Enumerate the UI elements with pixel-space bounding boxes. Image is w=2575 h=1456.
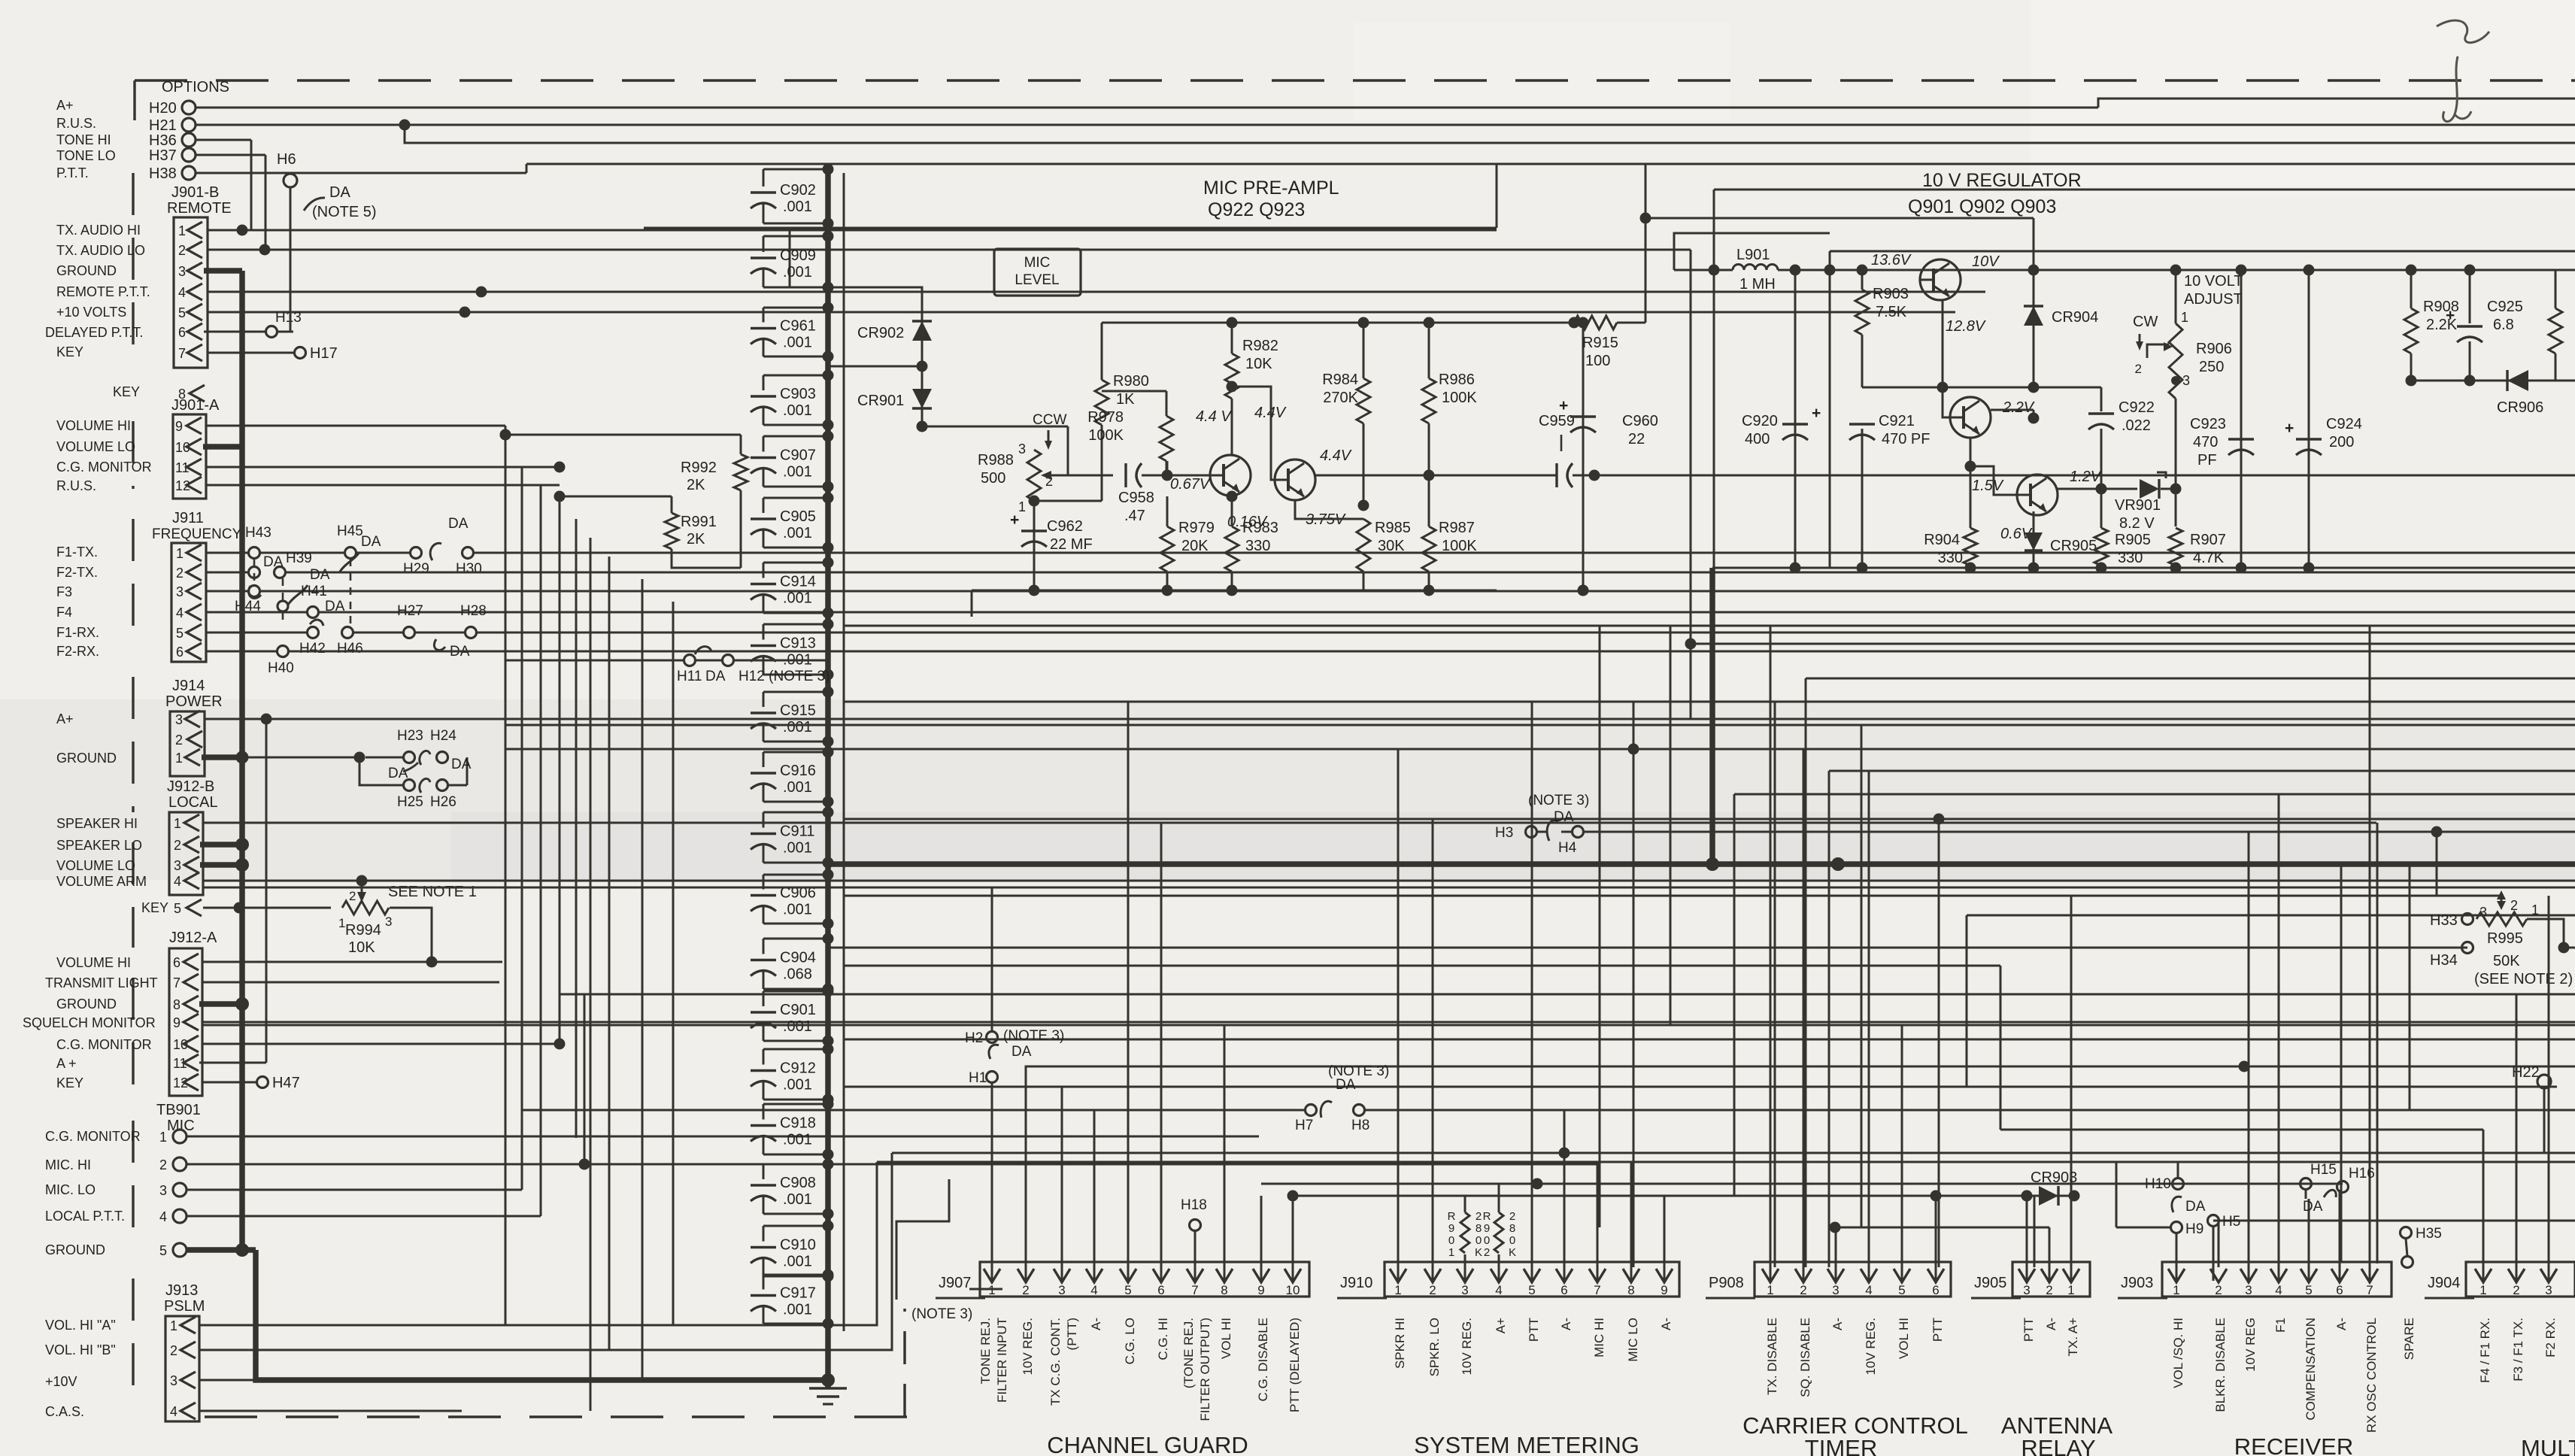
- svg-text:DA: DA: [1336, 1077, 1356, 1093]
- svg-text:R.U.S.: R.U.S.: [56, 116, 96, 131]
- jumper H3 DA H4: [1526, 827, 1537, 838]
- svg-text:Q901 Q902 Q903: Q901 Q902 Q903: [1908, 196, 2056, 217]
- svg-text:5: 5: [174, 901, 181, 916]
- svg-text:10 V REGULATOR: 10 V REGULATOR: [1922, 170, 2082, 191]
- svg-text:2: 2: [2513, 1283, 2519, 1297]
- capacitor C909: [763, 235, 828, 238]
- svg-text:H47: H47: [272, 1075, 300, 1091]
- svg-text:C915: C915: [780, 702, 816, 719]
- wire J912-B pin3 heavy: [200, 862, 242, 868]
- svg-text:.001: .001: [783, 1077, 812, 1094]
- svg-text:3: 3: [2023, 1283, 2030, 1297]
- svg-text:C.G. DISABLE: C.G. DISABLE: [1256, 1318, 1270, 1401]
- svg-text:DA: DA: [388, 766, 408, 781]
- svg-text:VOL HI: VOL HI: [1219, 1318, 1233, 1359]
- svg-text:(PTT): (PTT): [1065, 1318, 1079, 1350]
- regulator title underline: [1714, 189, 2575, 191]
- svg-text:2: 2: [159, 1157, 167, 1172]
- svg-text:2: 2: [2215, 1283, 2222, 1297]
- svg-text:.001: .001: [783, 719, 812, 736]
- svg-text:SPEAKER LO: SPEAKER LO: [56, 838, 142, 853]
- svg-text:MIC: MIC: [167, 1118, 195, 1134]
- svg-text:KEY: KEY: [141, 900, 168, 915]
- H10 H9 DA jumper: [2173, 1178, 2184, 1190]
- handwritten scribble top right: [2437, 20, 2489, 121]
- capacitor C903: [763, 375, 828, 377]
- svg-text:H5: H5: [2222, 1214, 2240, 1230]
- wire J913 pin1: [199, 1162, 877, 1325]
- wire Q902 emitter to Q903: [1970, 438, 1972, 466]
- capacitor C923 470PF: [2240, 270, 2243, 568]
- svg-text:1.5V: 1.5V: [1972, 478, 2004, 494]
- svg-text:6.8: 6.8: [2493, 317, 2514, 333]
- svg-text:R915: R915: [1582, 335, 1618, 351]
- bus wire row4: [526, 163, 1645, 165]
- svg-text:4: 4: [174, 874, 181, 889]
- svg-text:CR903: CR903: [2031, 1169, 2077, 1186]
- svg-text:GROUND: GROUND: [45, 1242, 105, 1257]
- svg-text:R: R: [1448, 1210, 1456, 1223]
- svg-text:5: 5: [159, 1243, 167, 1258]
- diode CR901: [921, 366, 924, 426]
- svg-text:H46: H46: [337, 641, 363, 657]
- wire Q902 collector to C922 node: [1991, 409, 2034, 411]
- svg-text:330: 330: [1938, 550, 1963, 566]
- svg-text:H45: H45: [337, 523, 363, 539]
- svg-text:3: 3: [178, 264, 186, 279]
- wire Q923 emitter to R985: [1295, 500, 1363, 519]
- svg-text:2: 2: [1509, 1210, 1515, 1223]
- svg-text:7: 7: [178, 346, 186, 361]
- resistor R978 100K: [1160, 416, 1173, 461]
- svg-text:C921: C921: [1879, 413, 1915, 429]
- svg-text:2: 2: [2046, 1283, 2052, 1297]
- transistor Q902: [1950, 397, 1991, 438]
- svg-text:MIC. HI: MIC. HI: [45, 1157, 91, 1172]
- svg-text:F1-RX.: F1-RX.: [56, 625, 99, 640]
- wire Q923 collector signal line: [1315, 475, 1557, 477]
- svg-text:TONE HI: TONE HI: [56, 132, 111, 147]
- svg-text:5: 5: [178, 305, 186, 320]
- svg-text:PTT: PTT: [1930, 1318, 1945, 1342]
- capacitor C961: [763, 307, 828, 309]
- svg-text:7: 7: [1594, 1283, 1600, 1297]
- svg-text:500: 500: [981, 470, 1005, 487]
- capacitor C921 470PF: [1849, 423, 1875, 425]
- svg-text:3: 3: [176, 584, 183, 599]
- svg-text:2: 2: [349, 889, 356, 903]
- svg-text:10V REG.: 10V REG.: [1864, 1318, 1878, 1376]
- svg-text:5: 5: [176, 626, 183, 641]
- svg-text:10V: 10V: [1972, 253, 2000, 270]
- svg-text:3: 3: [1832, 1283, 1839, 1297]
- svg-text:TX C.G. CONT.: TX C.G. CONT.: [1048, 1318, 1063, 1406]
- svg-text:1: 1: [2479, 1283, 2486, 1297]
- svg-text:2: 2: [174, 838, 181, 853]
- svg-text:H30: H30: [456, 561, 482, 577]
- svg-text:2: 2: [1476, 1210, 1482, 1223]
- svg-text:20K: 20K: [1181, 538, 1209, 554]
- svg-text:H18: H18: [1181, 1197, 1207, 1213]
- parallel vertical right of bus: [843, 173, 845, 1331]
- svg-text:H7: H7: [1295, 1118, 1313, 1133]
- wire TB901 pin4: [187, 1215, 541, 1218]
- svg-text:H41: H41: [301, 584, 327, 599]
- svg-text:C917: C917: [780, 1285, 816, 1302]
- svg-text:2: 2: [176, 566, 183, 581]
- svg-text:3: 3: [1058, 1283, 1065, 1297]
- svg-text:2.2V: 2.2V: [2002, 399, 2035, 416]
- H37 stub: [196, 154, 265, 156]
- wire to Q922 base: [1167, 475, 1210, 477]
- svg-text:C909: C909: [780, 247, 816, 264]
- svg-text:J905: J905: [1974, 1275, 2006, 1291]
- connector J903: [2162, 1262, 2392, 1297]
- svg-text:TRANSMIT LIGHT: TRANSMIT LIGHT: [45, 975, 158, 990]
- svg-text:P.T.T.: P.T.T.: [56, 165, 89, 180]
- svg-text:CW: CW: [2133, 314, 2158, 330]
- svg-text:330: 330: [1245, 538, 1270, 554]
- svg-text:10K: 10K: [348, 939, 375, 956]
- svg-text:SYSTEM METERING: SYSTEM METERING: [1414, 1432, 1639, 1456]
- svg-text:H25: H25: [397, 794, 423, 810]
- svg-text:R983: R983: [1242, 520, 1278, 536]
- svg-text:A-: A-: [1089, 1318, 1103, 1330]
- svg-text:.001: .001: [783, 402, 812, 419]
- capacitor C907: [763, 435, 828, 438]
- ground: [826, 1380, 830, 1388]
- svg-text:H13: H13: [275, 310, 302, 326]
- svg-text:3: 3: [175, 712, 183, 727]
- svg-text:4.4 V: 4.4 V: [1196, 408, 1232, 425]
- svg-text:KEY: KEY: [56, 344, 83, 359]
- svg-text:K: K: [1475, 1246, 1482, 1259]
- svg-text:.001: .001: [783, 464, 812, 481]
- svg-text:H20: H20: [149, 100, 177, 117]
- svg-text:RECEIVER: RECEIVER: [2234, 1433, 2353, 1456]
- svg-text:5: 5: [2305, 1283, 2312, 1297]
- svg-text:+: +: [2285, 420, 2294, 437]
- capacitor C904: [763, 938, 828, 940]
- wire J911 pin3 + H44: [206, 590, 248, 593]
- svg-text:4.4V: 4.4V: [1320, 447, 1352, 464]
- svg-text:H40: H40: [268, 660, 294, 676]
- svg-text:1K: 1K: [1116, 391, 1135, 408]
- resistor R982 10K: [1231, 323, 1233, 353]
- svg-text:J914: J914: [172, 678, 205, 694]
- svg-text:TB901: TB901: [156, 1102, 201, 1118]
- wire J901-B pin7 to H17: [208, 352, 293, 354]
- svg-text:R985: R985: [1375, 520, 1411, 536]
- wire Q922 collector to Q923 base: [1227, 381, 1238, 393]
- svg-text:H6: H6: [277, 151, 296, 168]
- svg-text:7: 7: [1191, 1283, 1198, 1297]
- capacitor C916: [763, 751, 828, 754]
- svg-text:.001: .001: [783, 779, 812, 796]
- svg-text:(NOTE 3): (NOTE 3): [911, 1306, 972, 1322]
- wire J912-B pin1: [203, 822, 2376, 824]
- pin feed wires P908: [1770, 626, 1772, 1281]
- capacitor C902: [763, 168, 828, 171]
- svg-text:C902: C902: [780, 182, 816, 199]
- svg-text:.001: .001: [783, 1254, 812, 1270]
- svg-text:J912-A: J912-A: [169, 930, 217, 946]
- svg-text:2: 2: [175, 733, 183, 748]
- svg-text:C914: C914: [780, 574, 816, 590]
- wire J913 pin4: [199, 1410, 462, 1412]
- capacitor C958 .47: [1124, 463, 1127, 487]
- svg-text:8: 8: [173, 997, 180, 1012]
- svg-text:C924: C924: [2326, 416, 2362, 432]
- svg-text:F2-TX.: F2-TX.: [56, 565, 98, 580]
- svg-text:1: 1: [1394, 1283, 1401, 1297]
- svg-text:DA: DA: [448, 516, 469, 532]
- svg-text:3: 3: [1461, 1283, 1468, 1297]
- svg-text:J901-A: J901-A: [171, 397, 220, 414]
- resistor R908 2.2K: [2410, 270, 2413, 308]
- svg-text:CR902: CR902: [857, 325, 904, 341]
- svg-text:12.8V: 12.8V: [1946, 318, 1986, 335]
- svg-text:R.U.S.: R.U.S.: [56, 478, 96, 493]
- svg-text:7: 7: [2366, 1283, 2373, 1297]
- svg-text:VOLUME HI: VOLUME HI: [56, 955, 131, 970]
- svg-text:R991: R991: [681, 514, 717, 530]
- svg-text:DA: DA: [310, 567, 330, 583]
- svg-text:A+: A+: [56, 98, 74, 113]
- svg-text:R995: R995: [2487, 930, 2523, 947]
- svg-text:(TONE REJ.: (TONE REJ.: [1181, 1318, 1196, 1388]
- capacitor C915: [763, 691, 828, 693]
- svg-text:TX. AUDIO LO: TX. AUDIO LO: [56, 243, 145, 258]
- svg-text:R994: R994: [345, 922, 381, 939]
- bus wire H38 row: [196, 172, 290, 174]
- svg-text:R980: R980: [1113, 373, 1149, 390]
- svg-text:H1: H1: [969, 1070, 987, 1086]
- wire J901-A pin9: [206, 425, 505, 427]
- svg-text:C905: C905: [780, 508, 816, 525]
- svg-text:R: R: [1483, 1210, 1491, 1223]
- svg-text:R984: R984: [1322, 372, 1358, 388]
- resistor R903 7.5K: [1861, 270, 1864, 290]
- svg-text:COMPENSATION: COMPENSATION: [2304, 1318, 2318, 1421]
- jumper H2 H1 on J907 pin1 feed: [987, 1032, 998, 1043]
- wire Q901 emitter down: [1942, 300, 1944, 387]
- resistor R983 330: [1231, 496, 1233, 526]
- transistor Q901: [1920, 259, 1961, 300]
- svg-text:L901: L901: [1736, 247, 1770, 263]
- svg-text:PTT (DELAYED): PTT (DELAYED): [1287, 1318, 1302, 1412]
- connector J905: [2012, 1262, 2090, 1297]
- svg-text:8: 8: [1221, 1283, 1227, 1297]
- svg-text:BLKR. DISABLE: BLKR. DISABLE: [2213, 1318, 2228, 1412]
- svg-text:3: 3: [170, 1373, 177, 1388]
- capacitor C906: [763, 874, 828, 876]
- svg-text:(NOTE 3): (NOTE 3): [1003, 1028, 1064, 1044]
- vertical mesh wires right: [1599, 626, 1601, 1227]
- svg-text:7: 7: [173, 975, 180, 990]
- svg-text:R986: R986: [1439, 372, 1475, 388]
- svg-text:+: +: [1812, 405, 1821, 422]
- vertical mesh wires left-middle: [505, 435, 507, 1324]
- svg-text:A-: A-: [1559, 1318, 1573, 1330]
- svg-text:VOL. HI "A": VOL. HI "A": [45, 1318, 116, 1333]
- svg-text:.001: .001: [783, 1132, 812, 1148]
- svg-text:330: 330: [2118, 550, 2143, 566]
- svg-text:A+: A+: [56, 711, 74, 726]
- svg-text:C910: C910: [780, 1237, 816, 1254]
- svg-text:DA: DA: [2185, 1199, 2206, 1215]
- svg-text:R992: R992: [681, 460, 717, 476]
- svg-text:13.6V: 13.6V: [1871, 252, 1912, 268]
- svg-text:C904: C904: [780, 950, 816, 966]
- wire Q922 emitter: [1230, 496, 1232, 496]
- mesh horizontals right: [844, 625, 2575, 627]
- wire J912-A pin7: [202, 981, 499, 984]
- wire J901-A pin10 heavy: [203, 444, 242, 450]
- svg-text:DA: DA: [2303, 1199, 2323, 1215]
- wire J901-B pin5: [208, 311, 1955, 314]
- pin feed wires J903 rest: [2248, 832, 2250, 1281]
- node H5: [2208, 1215, 2219, 1227]
- svg-text:10V REG.: 10V REG.: [1021, 1318, 1035, 1376]
- svg-text:H23: H23: [397, 728, 423, 744]
- svg-text:DA: DA: [705, 669, 726, 684]
- svg-text:R978: R978: [1087, 409, 1124, 426]
- svg-text:0: 0: [1476, 1234, 1482, 1247]
- svg-text:H15: H15: [2310, 1162, 2337, 1178]
- transistor Q903: [2017, 475, 2058, 515]
- svg-text:2: 2: [2510, 898, 2518, 913]
- svg-text:100K: 100K: [1088, 427, 1124, 444]
- svg-text:H10: H10: [2145, 1176, 2171, 1192]
- svg-text:10 VOLT: 10 VOLT: [2184, 273, 2243, 290]
- capacitor C908: [763, 1163, 828, 1166]
- svg-text:C908: C908: [780, 1175, 816, 1191]
- svg-text:100: 100: [1585, 353, 1610, 369]
- svg-text:H42: H42: [299, 641, 326, 657]
- capacitor bus heavy vertical: [825, 164, 831, 1388]
- wire Q902 base: [1943, 387, 1950, 417]
- svg-text:2: 2: [170, 1343, 177, 1358]
- ground bus trunk vertical heavy: [239, 271, 245, 1250]
- pin feed wires J910: [1397, 749, 1400, 1281]
- wire J912-B pin5 KEY to R994: [203, 907, 239, 909]
- wire signal to right: [1594, 475, 2575, 477]
- diode CR904: [2033, 270, 2035, 387]
- resistor R986 100K: [1428, 323, 1430, 378]
- svg-text:C907: C907: [780, 447, 816, 464]
- capacitor C917: [763, 1274, 828, 1276]
- svg-text:9: 9: [1484, 1222, 1490, 1235]
- svg-text:4: 4: [1865, 1283, 1872, 1297]
- svg-text:C911: C911: [780, 824, 814, 840]
- svg-text:H38: H38: [149, 165, 177, 182]
- svg-text:(NOTE 3): (NOTE 3): [1328, 1063, 1389, 1079]
- svg-text:3: 3: [174, 858, 181, 873]
- capacitor C918: [763, 1103, 828, 1106]
- svg-text:VOLUME HI: VOLUME HI: [56, 418, 131, 433]
- wire J911 pin5 + H42 H46 H27 H28: [206, 632, 307, 634]
- svg-text:C925: C925: [2487, 299, 2523, 315]
- svg-text:F3: F3: [56, 584, 72, 599]
- diode CR906: [2411, 380, 2575, 382]
- svg-text:270K: 270K: [1323, 390, 1358, 406]
- svg-text:.001: .001: [783, 525, 812, 541]
- svg-text:CR904: CR904: [2052, 309, 2098, 326]
- svg-text:KEY: KEY: [56, 1075, 83, 1090]
- svg-text:+: +: [2446, 307, 2455, 324]
- svg-text:H27: H27: [397, 603, 423, 619]
- svg-text:+10V: +10V: [45, 1374, 77, 1389]
- svg-text:H37: H37: [149, 147, 177, 164]
- svg-text:.068: .068: [783, 966, 812, 983]
- svg-text:2: 2: [1484, 1246, 1490, 1259]
- svg-text:H21: H21: [149, 117, 177, 134]
- svg-text:J911: J911: [172, 510, 204, 526]
- wire J911 pin2 + H39: [206, 572, 248, 574]
- svg-text:H4: H4: [1558, 840, 1577, 856]
- node H13: [266, 326, 278, 338]
- svg-text:470: 470: [2193, 434, 2218, 450]
- svg-text:MIC: MIC: [1024, 255, 1051, 271]
- zener VR901 8.2V: [2140, 479, 2159, 499]
- H36 stub: [196, 139, 251, 141]
- svg-text:F1-TX.: F1-TX.: [56, 544, 98, 560]
- svg-text:8: 8: [1476, 1222, 1482, 1235]
- svg-text:R906: R906: [2196, 341, 2232, 357]
- svg-text:H8: H8: [1351, 1118, 1369, 1133]
- capacitor C913: [763, 623, 828, 626]
- svg-text:C922: C922: [2119, 399, 2155, 416]
- capacitor C912: [763, 1048, 828, 1051]
- svg-text:H35: H35: [2416, 1226, 2442, 1242]
- jumper H23 H24: [365, 757, 403, 759]
- svg-text:H16: H16: [2349, 1166, 2375, 1181]
- wire J901-A pin11: [206, 466, 560, 469]
- svg-text:.001: .001: [783, 335, 812, 351]
- svg-text:VOL. HI "B": VOL. HI "B": [45, 1342, 116, 1357]
- svg-text:VOLUME ARM: VOLUME ARM: [56, 874, 147, 889]
- svg-text:(SEE NOTE 2): (SEE NOTE 2): [2474, 971, 2573, 987]
- svg-text:1: 1: [1767, 1283, 1773, 1297]
- resistor R907 4.7K: [2175, 489, 2177, 526]
- svg-text:LOCAL P.T.T.: LOCAL P.T.T.: [45, 1209, 125, 1224]
- svg-text:GROUND: GROUND: [56, 996, 117, 1012]
- svg-text:2K: 2K: [687, 531, 705, 548]
- svg-text:2: 2: [2135, 362, 2142, 376]
- line above rail: [1830, 250, 2575, 253]
- bus wire H20 row: [196, 107, 2098, 109]
- svg-text:10V REG.: 10V REG.: [1460, 1318, 1474, 1376]
- svg-text:CHANNEL GUARD: CHANNEL GUARD: [1047, 1432, 1248, 1456]
- wire J912-A pin12 to H47: [202, 1081, 256, 1084]
- svg-text:H39: H39: [286, 551, 312, 566]
- svg-text:DA: DA: [1554, 809, 1574, 825]
- svg-text:.001: .001: [783, 264, 812, 281]
- resistor R902 280K: [1498, 1254, 1500, 1281]
- svg-text:Q922 Q923: Q922 Q923: [1208, 199, 1305, 220]
- svg-text:1: 1: [174, 816, 181, 831]
- svg-text:TX. AUDIO HI: TX. AUDIO HI: [56, 223, 141, 238]
- svg-text:R988: R988: [978, 452, 1014, 469]
- svg-text:A-: A-: [2334, 1318, 2349, 1330]
- svg-text:C913: C913: [780, 635, 816, 652]
- svg-text:4: 4: [176, 605, 183, 620]
- svg-text:R982: R982: [1242, 338, 1278, 354]
- resistor R985 30K: [1357, 519, 1370, 572]
- svg-text:6: 6: [176, 645, 183, 660]
- svg-text:MIC LO: MIC LO: [1626, 1318, 1640, 1362]
